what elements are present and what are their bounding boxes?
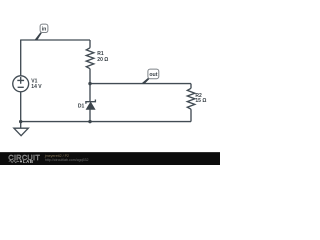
- ground symbol: [14, 128, 28, 136]
- CircuitLab logo zigzag: [9, 160, 19, 162]
- wire R1 bottom lead to node: [89, 69, 91, 84]
- voltage source V1 circle: [13, 76, 29, 92]
- wire left upper (top corner down to V1 top): [20, 40, 22, 76]
- wire left lower (V1 bottom down to ground node): [20, 92, 22, 122]
- svg-text:15 Ω: 15 Ω: [195, 98, 206, 104]
- flag out box: [148, 69, 159, 79]
- V1 plus sign: [17, 77, 24, 84]
- svg-text:out: out: [149, 72, 157, 78]
- svg-text:in: in: [42, 27, 47, 33]
- svg-text:LAB: LAB: [23, 159, 34, 164]
- CircuitLab logo dot: [20, 161, 22, 163]
- node junction dot R1/D1/out: [88, 82, 91, 85]
- resistor R2: [187, 88, 195, 109]
- watermark bar: [0, 152, 220, 165]
- svg-text:14 V: 14 V: [31, 84, 42, 90]
- wire R2 bottom lead: [190, 109, 192, 121]
- node junction dot D1/ground wire: [88, 120, 91, 123]
- diode D1 zener cathode bar: [86, 100, 96, 104]
- wire middle (out net): [90, 83, 191, 85]
- flag in pointer: [35, 33, 42, 41]
- wire D1 top lead: [89, 84, 91, 102]
- wire R1 branch top lead: [89, 40, 91, 48]
- svg-text:D1: D1: [78, 104, 85, 110]
- wire ground stub: [20, 122, 22, 129]
- wire top from node in corner to R1: [21, 39, 90, 41]
- wire bottom (ground net): [21, 121, 191, 123]
- V1 minus sign: [18, 86, 24, 88]
- flag out pointer: [142, 78, 150, 84]
- node junction dot at V1/ground: [19, 120, 22, 123]
- wire R2 top lead: [190, 84, 192, 89]
- flag in box: [40, 24, 48, 32]
- resistor R1: [86, 48, 94, 69]
- svg-text:20 Ω: 20 Ω: [97, 57, 108, 63]
- diode D1 triangle: [86, 102, 95, 109]
- wire D1 bottom lead: [89, 109, 91, 121]
- svg-text:http://circuitlab.com/cgq532: http://circuitlab.com/cgq532: [45, 158, 89, 162]
